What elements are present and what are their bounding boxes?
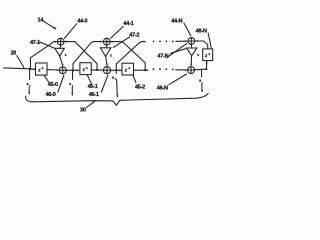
arrowhead up into box 48-N: [206, 61, 208, 64]
svg-text:46-1: 46-1: [89, 92, 99, 98]
adder 44-1 top: [103, 38, 110, 45]
label 46-0: [46, 75, 64, 98]
tap line aj output: [199, 70, 203, 93]
svg-text:x: x: [197, 53, 199, 57]
delay box 45-0: [36, 63, 48, 75]
label 44-N: [171, 19, 191, 36]
delay box 45-2: [122, 63, 134, 75]
label 48-N: [196, 29, 212, 48]
svg-text:28: 28: [11, 50, 17, 56]
svg-text:47-2: 47-2: [129, 33, 139, 39]
arrowhead into adder 46-N left: [185, 69, 188, 71]
wire triangle 47-1 apex to adder 46-0: [60, 56, 63, 65]
arrowhead into box 45-1: [77, 69, 80, 71]
wire adder 44-1 right input descending: [110, 42, 145, 70]
svg-text:44-0: 44-0: [77, 19, 87, 25]
label 46-N: [157, 74, 187, 91]
arrowhead into adder 44-0 right: [64, 41, 67, 43]
label 46-1: [89, 75, 108, 98]
svg-text:47-1: 47-1: [30, 40, 40, 46]
wire top line into adder 44-N: [176, 40, 187, 42]
arrowhead after junction toward dots: [146, 69, 149, 71]
wire input line: [4, 68, 35, 69]
wire box 45-0 to adder 46-0: [47, 69, 58, 71]
node junction after box 45-2: [144, 69, 146, 71]
svg-text:46-N: 46-N: [157, 85, 168, 91]
arrowhead on top line toward dots: [144, 41, 147, 43]
arrowhead into adder 46-0: [57, 69, 60, 71]
wire riser junction to top line right: [116, 42, 144, 71]
wire triangle 47-2 apex to adder 46-1: [106, 57, 107, 65]
multiplier triangle 47-N: [187, 44, 200, 57]
leader line 28: [17, 56, 24, 68]
wire adder 44-0 right input from next tap: [64, 42, 97, 70]
wire adder 46-0 to box 45-1: [66, 69, 78, 71]
svg-text:45-1: 45-1: [88, 84, 98, 90]
arrowhead into adder 46-1: [101, 69, 104, 71]
label 45-0: [44, 76, 58, 88]
adder 44-N top: [188, 38, 195, 45]
label 45-1: [87, 75, 97, 90]
arrowhead into box 45-0: [33, 68, 36, 70]
arrowhead into box 45-2: [119, 69, 122, 71]
node input junction: [29, 68, 31, 70]
svg-text:-1: -1: [208, 52, 211, 56]
dots bottom line: [153, 68, 174, 70]
label 45-2: [133, 76, 145, 91]
svg-text:45-0: 45-0: [48, 82, 58, 88]
wire adder 44-N right input from box 48-N: [195, 41, 208, 48]
node junction after adder 46-1: [115, 69, 117, 71]
node output junction: [205, 68, 207, 70]
label 14: [38, 17, 45, 23]
wire riser junction to top adder 44-1: [73, 42, 102, 71]
arrowhead into adder 44-N left: [185, 40, 188, 42]
label 30: [80, 101, 95, 114]
label 47-2: [113, 33, 139, 48]
wire triangle 47-N apex to adder 46-N: [190, 56, 192, 65]
arrowhead into adder 44-N right: [195, 40, 198, 42]
svg-text:-1: -1: [85, 66, 88, 70]
svg-text:-1: -1: [41, 66, 44, 70]
adder 46-1 bottom: [103, 67, 110, 74]
wire box 48-N bottom to junction: [206, 61, 208, 69]
svg-text:47-N: 47-N: [157, 54, 168, 60]
svg-text:46-0: 46-0: [46, 92, 56, 98]
adder 46-0 bottom: [59, 67, 66, 74]
tap line a1: [69, 70, 74, 96]
label 28 input: [11, 50, 17, 56]
arrowhead into adder 46-1 top: [106, 64, 108, 67]
multiplier triangle 47-1: [55, 45, 67, 57]
arrowhead into adder 44-0 left: [55, 41, 58, 43]
svg-text:44-1: 44-1: [123, 21, 133, 27]
label 44-1: [111, 21, 134, 38]
wire bottom line into adder 46-N: [176, 69, 186, 71]
svg-text:45-2: 45-2: [135, 84, 145, 90]
tap line a2: [112, 70, 118, 98]
wire box 45-2 to dots: [134, 69, 148, 71]
multiplier triangle 47-2: [100, 45, 112, 58]
label 44-0: [65, 19, 88, 39]
wire rising diagonal into adder 44-N: [167, 44, 187, 58]
wire box 45-1 to adder 46-1: [91, 69, 102, 71]
brace 30: [26, 93, 209, 105]
svg-text:48-N: 48-N: [196, 29, 207, 35]
wire riser input junction to top adder 44-0: [30, 42, 56, 69]
label 47-N: [157, 49, 185, 60]
wire adder 46-N to output junction: [195, 68, 207, 71]
svg-text:30: 30: [80, 108, 86, 114]
arrow from 14 to filter assembly: [44, 21, 57, 29]
node junction before adder 46-1: [96, 69, 98, 71]
svg-text:x: x: [110, 54, 112, 58]
arrowhead into adder 46-N top: [190, 64, 192, 67]
arrowhead into adder 44-1 right: [110, 41, 113, 43]
svg-text:-1: -1: [128, 66, 131, 70]
arrowhead into adder 44-1 left: [101, 41, 104, 43]
arrowhead into adder 46-0 top: [62, 64, 64, 67]
node junction after adder 46-0: [72, 69, 74, 71]
adder 44-0 top: [57, 38, 64, 45]
delay box 45-1: [80, 63, 91, 75]
wire adder 46-1 to box 45-2: [111, 69, 121, 71]
label 47-1: [30, 40, 54, 48]
svg-text:14: 14: [38, 17, 45, 23]
tap line a0 from input junction: [27, 69, 32, 95]
adder 46-N bottom: [188, 67, 195, 74]
dots top line: [153, 41, 174, 43]
delay box 48-N: [203, 49, 213, 61]
svg-text:x: x: [65, 53, 67, 57]
svg-text:44-N: 44-N: [171, 19, 182, 25]
